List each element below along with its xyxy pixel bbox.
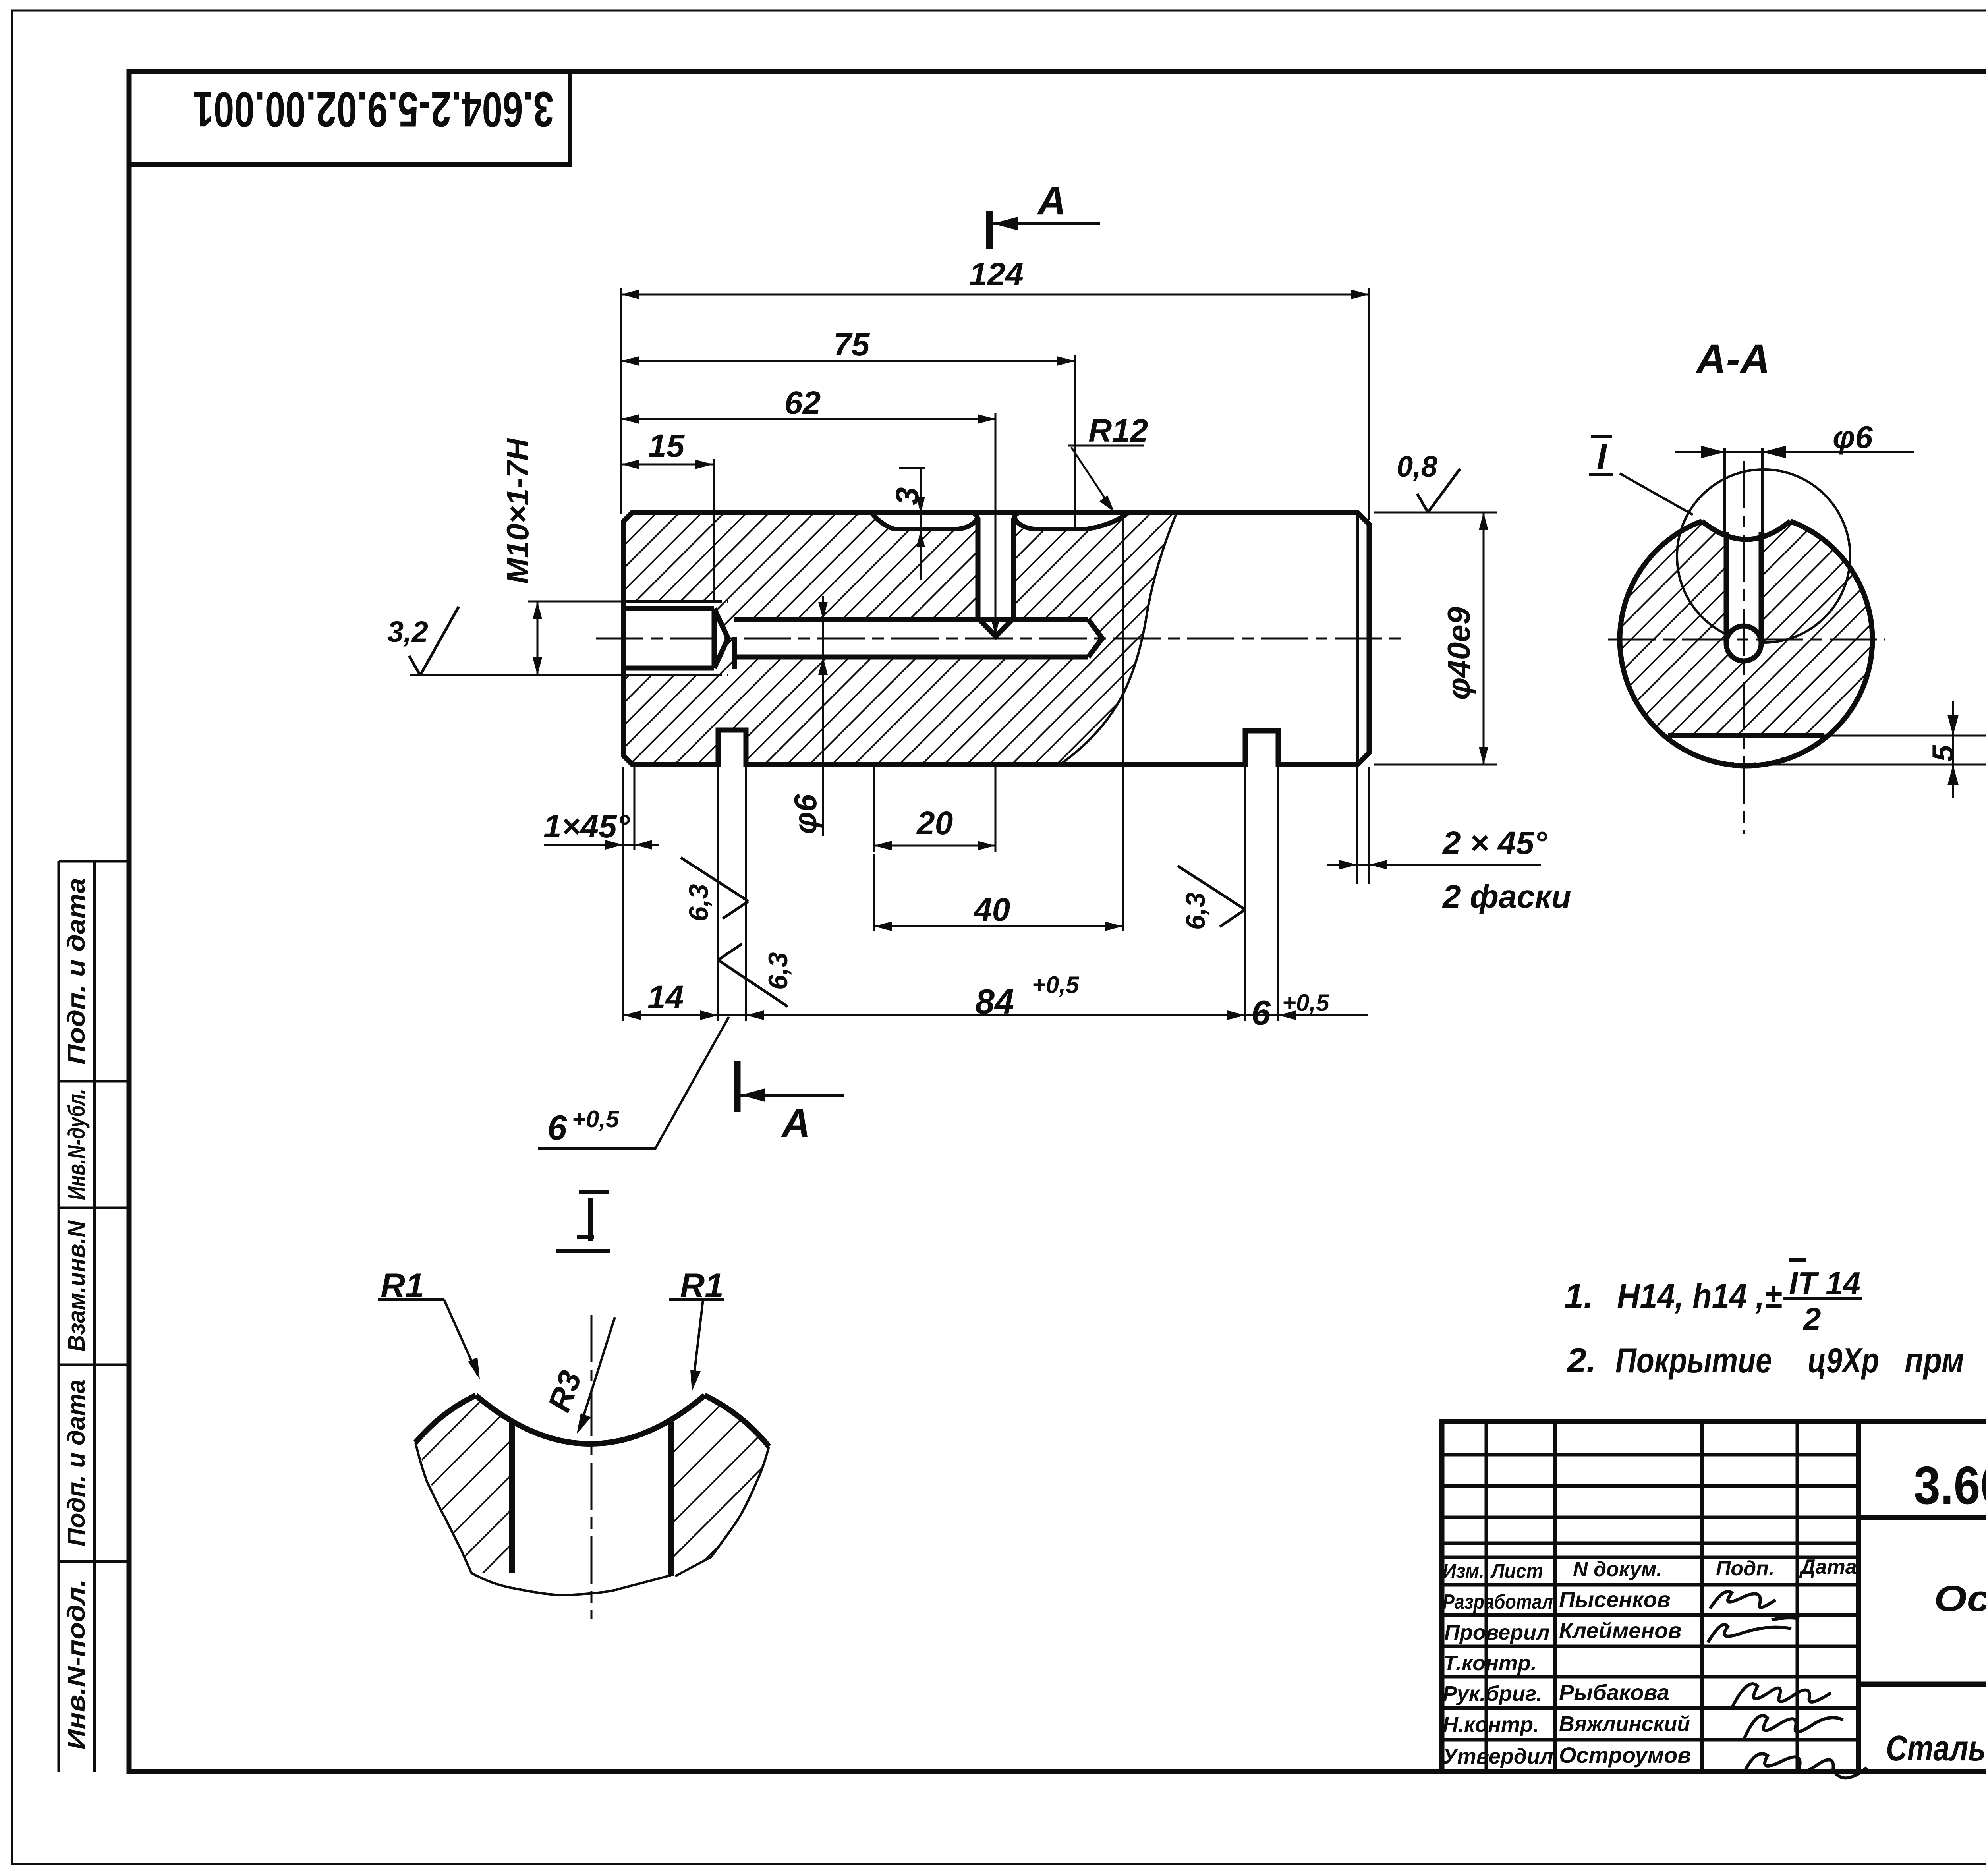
- break (wavy) line: [1061, 513, 1177, 764]
- signature Pysenkov: [1710, 1592, 1775, 1609]
- section A-A cutting marks: [986, 211, 993, 249]
- signature Ostroumov: [1744, 1754, 1867, 1778]
- svg-text:Взам.инв.N: Взам.инв.N: [63, 1220, 90, 1352]
- TITLE-BLOCK: [1442, 1422, 1986, 1772]
- svg-text:Сталь 45 ГОСТ 1050-88: Сталь 45 ГОСТ 1050-88: [1886, 1729, 1986, 1768]
- R12 leader: [1068, 445, 1144, 447]
- M10 thread: thin major-dia lines: [621, 600, 714, 603]
- svg-text:6,3: 6,3: [684, 884, 714, 922]
- DIMENSIONS: [409, 211, 1541, 1148]
- horizontal lines left part: [1442, 1453, 1858, 1457]
- svg-text:I: I: [1597, 437, 1607, 477]
- axial hole end cone: [1088, 620, 1102, 657]
- axial hole phi6 walls: [734, 617, 1088, 622]
- phi6 slot extension thin walls: [1723, 448, 1726, 534]
- SECTION-AA: [1589, 436, 1986, 834]
- recess floor arc across slot: [1702, 521, 1790, 539]
- MAIN-VIEW: [596, 512, 1402, 765]
- svg-text:N докум.: N докум.: [1573, 1558, 1662, 1581]
- centerline: [591, 1315, 593, 1619]
- svg-text:15: 15: [648, 428, 685, 464]
- 3,2 roughness check: [409, 607, 459, 675]
- svg-text:Подп. и дата: Подп. и дата: [63, 878, 90, 1065]
- 2x45 chamfer dim: [1356, 767, 1358, 884]
- svg-text:84: 84: [975, 982, 1014, 1021]
- svg-text:Проверил: Проверил: [1444, 1621, 1550, 1644]
- svg-text:1.: 1.: [1564, 1276, 1593, 1316]
- white-out bottom segment below chord: [1668, 736, 1824, 763]
- dim 75: [1074, 355, 1076, 529]
- signature Rybakova: [1732, 1684, 1831, 1708]
- svg-text:2 фаски: 2 фаски: [1442, 879, 1571, 915]
- svg-text:Лист: Лист: [1490, 1560, 1543, 1582]
- svg-text:14: 14: [647, 979, 684, 1015]
- svg-text:Н.контр.: Н.контр.: [1443, 1713, 1539, 1737]
- svg-text:3: 3: [889, 487, 925, 505]
- svg-text:R12: R12: [1088, 413, 1148, 449]
- left margin strip column lines: [58, 861, 60, 1772]
- dim 5 extensions: [1824, 735, 1986, 737]
- hatched section region of shaft: [624, 512, 1177, 765]
- hatch fill: circle minus top notch: [1620, 521, 1872, 766]
- svg-text:Покрытие: Покрытие: [1615, 1341, 1772, 1380]
- svg-text:0,8: 0,8: [1397, 450, 1438, 483]
- svg-text:+0,5: +0,5: [1032, 972, 1080, 998]
- svg-text:62: 62: [784, 385, 821, 421]
- rounded lips of hole opening: [972, 512, 1020, 520]
- svg-text:Изм.: Изм.: [1443, 1560, 1484, 1582]
- bottom dim extension lines: [622, 769, 624, 1021]
- svg-text:Пысенков: Пысенков: [1559, 1587, 1671, 1612]
- white-out: axial hole phi6: [734, 620, 1102, 657]
- svg-text:6: 6: [547, 1108, 567, 1147]
- svg-text:φ40е9: φ40е9: [1441, 607, 1476, 700]
- svg-text:Рук.бриг.: Рук.бриг.: [1443, 1682, 1542, 1706]
- dim 15: [713, 459, 715, 603]
- 0,8 roughness check: [1417, 469, 1460, 512]
- svg-text:Ось: Ось: [1934, 1578, 1986, 1619]
- DETAIL-I: [378, 1192, 769, 1619]
- svg-text:5: 5: [1926, 744, 1960, 762]
- leader 6+0,5 left groove: [538, 1017, 729, 1148]
- svg-text:R1: R1: [381, 1267, 424, 1305]
- step at thread runout: [732, 637, 737, 669]
- detail label I: [579, 1190, 609, 1194]
- svg-text:A: A: [1036, 179, 1066, 223]
- svg-text:3.604.2-5.9.02.00.001: 3.604.2-5.9.02.00.001: [193, 81, 554, 137]
- svg-text:Утвердил: Утвердил: [1443, 1745, 1553, 1768]
- outer surface arcs: [415, 1395, 476, 1443]
- R1 left label: [378, 1298, 444, 1301]
- svg-text:1×45°: 1×45°: [543, 808, 630, 844]
- white-out: vertical hole phi6: [978, 516, 1014, 636]
- svg-text:40: 40: [973, 892, 1010, 928]
- svg-text:Подп. и дата: Подп. и дата: [63, 1379, 90, 1546]
- centerlines: [1608, 639, 1885, 641]
- detail I label and leader: [1589, 473, 1613, 476]
- right chamfer edge line: [1356, 512, 1359, 765]
- svg-text:A-A: A-A: [1695, 336, 1770, 383]
- svg-text:2.: 2.: [1566, 1341, 1596, 1380]
- M10 drill cone: [714, 609, 728, 668]
- M10 dimension lines: [528, 601, 624, 603]
- svg-text:H14, h14 ,±: H14, h14 ,±: [1617, 1276, 1782, 1316]
- svg-text:3.604.2-5.9.02.00.001: 3.604.2-5.9.02.00.001: [1914, 1455, 1986, 1515]
- M10 hole end face: [712, 609, 717, 668]
- dim 14 / 84 / 6 common line: [623, 1014, 1311, 1016]
- thin cutter circle R12: [1677, 469, 1850, 643]
- svg-text:Клейменов: Клейменов: [1559, 1618, 1681, 1643]
- svg-text:φ6: φ6: [1833, 419, 1873, 455]
- right hatched flank: [671, 1395, 769, 1576]
- shaft outline: [624, 512, 1369, 765]
- svg-text:3,2: 3,2: [387, 615, 428, 648]
- dim 20: [873, 766, 875, 852]
- shaft axis centerline: [596, 638, 1402, 640]
- svg-text:+0,5: +0,5: [572, 1106, 620, 1132]
- keyway flat chord: [1668, 733, 1824, 738]
- recess floor arc R12: [476, 1395, 705, 1444]
- svg-text:Остроумов: Остроумов: [1559, 1743, 1691, 1768]
- svg-text:Инв.N-дубл.: Инв.N-дубл.: [63, 1089, 90, 1200]
- 1x45 chamfer dim: [622, 767, 624, 850]
- break lines: [415, 1443, 769, 1595]
- svg-text:ц9Хр: ц9Хр: [1808, 1341, 1879, 1380]
- svg-text:φ6: φ6: [788, 794, 823, 834]
- phi6 axial hole dim: [822, 596, 824, 836]
- svg-text:Вяжлинский: Вяжлинский: [1559, 1712, 1690, 1736]
- svg-text:75: 75: [833, 327, 870, 363]
- big circle outline (minus top notch): [1620, 521, 1872, 766]
- svg-text:Подп.: Подп.: [1716, 1557, 1775, 1580]
- left hatched flank: [415, 1395, 512, 1573]
- right part lines: [1858, 1515, 1986, 1520]
- M10 thread: bold bore lines: [621, 606, 714, 611]
- recess floor line with R12 runout: [872, 513, 1128, 529]
- svg-text:2 × 45°: 2 × 45°: [1442, 825, 1547, 861]
- white slot with round bottom: [1726, 532, 1761, 661]
- dim 124: [621, 294, 1369, 296]
- dim 62 (to vertical hole tip): [995, 413, 997, 633]
- svg-text:IT 14: IT 14: [1789, 1265, 1860, 1301]
- svg-text:A: A: [780, 1101, 810, 1146]
- svg-text:Инв.N-подл.: Инв.N-подл.: [63, 1579, 90, 1750]
- slot walls: [509, 1423, 515, 1573]
- R3 leader: [580, 1317, 615, 1428]
- extension line left face: [620, 288, 622, 514]
- svg-text:Разработал: Разработал: [1443, 1590, 1553, 1613]
- signature Kleymenov: [1708, 1618, 1799, 1642]
- svg-text:Рыбакова: Рыбакова: [1559, 1680, 1669, 1705]
- vertical hole phi6 walls: [978, 518, 1014, 636]
- svg-text:+0,5: +0,5: [1282, 989, 1330, 1016]
- svg-text:20: 20: [916, 805, 953, 841]
- svg-text:Дата: Дата: [1799, 1555, 1857, 1578]
- dim 3 recess depth leader: [899, 467, 925, 469]
- white-out: M10 thread hole: [621, 601, 728, 675]
- extension line right end face (124): [1368, 288, 1370, 520]
- 6,3 roughness marks on grooves: [681, 858, 748, 918]
- signature Vyazhlinsky: [1744, 1716, 1843, 1740]
- svg-text:6,3: 6,3: [763, 952, 793, 990]
- svg-text:R1: R1: [680, 1267, 724, 1305]
- phi6 dimension on slot: [1675, 451, 1914, 453]
- svg-text:124: 124: [969, 256, 1024, 292]
- svg-text:M10×1-7H: M10×1-7H: [500, 438, 535, 584]
- svg-text:Т.контр.: Т.контр.: [1443, 1651, 1537, 1675]
- top-left document number box: [129, 71, 570, 165]
- svg-text:2: 2: [1802, 1301, 1821, 1337]
- svg-text:прм: прм: [1905, 1341, 1964, 1380]
- vertical lines left part: [1485, 1422, 1488, 1772]
- R1 right label: [669, 1298, 724, 1301]
- svg-text:6: 6: [1251, 993, 1271, 1032]
- NOTES: [1564, 1260, 1964, 1380]
- dim 40: [873, 854, 875, 931]
- phi40e9 dimension: [1374, 512, 1497, 514]
- svg-text:6,3: 6,3: [1180, 892, 1211, 930]
